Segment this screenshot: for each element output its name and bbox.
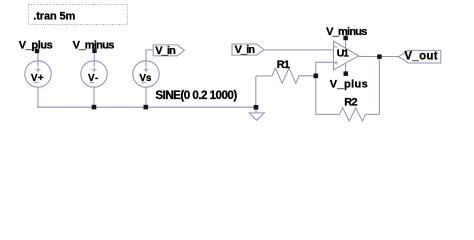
svg-text:V_in: V_in (235, 44, 256, 56)
svg-text:V_minus: V_minus (326, 26, 367, 38)
svg-text:U1: U1 (337, 48, 349, 60)
svg-text:V+: V+ (31, 73, 44, 84)
svg-text:V_out: V_out (404, 50, 437, 62)
svg-text:R1: R1 (277, 59, 290, 71)
svg-text:V_plus: V_plus (330, 79, 368, 91)
svg-text:SINE(0 0.2 1000): SINE(0 0.2 1000) (155, 89, 237, 102)
svg-text:Vs: Vs (139, 73, 151, 84)
svg-text:.tran 5m: .tran 5m (33, 11, 75, 23)
svg-text:V_plus: V_plus (19, 39, 53, 51)
svg-text:V_in: V_in (155, 45, 176, 57)
svg-text:R2: R2 (344, 96, 357, 108)
svg-text:V-: V- (88, 73, 98, 84)
svg-text:V_minus: V_minus (73, 39, 115, 51)
